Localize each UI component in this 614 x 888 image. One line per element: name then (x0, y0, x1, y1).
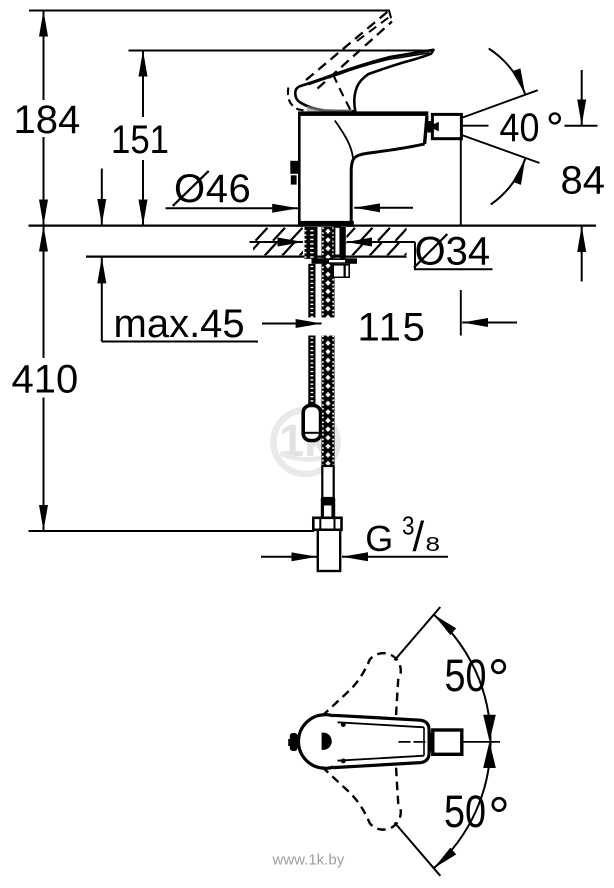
dim 40deg upper ray (438, 90, 538, 126)
faucet handle dashed raised mid edge (357, 16, 391, 41)
svg-text:www.1k.by: www.1k.by (272, 851, 345, 868)
dim 184 line (43, 11, 45, 101)
countertop bottom line (86, 255, 407, 257)
dim 184 extension line (29, 10, 390, 12)
faucet left clip lower (291, 175, 297, 184)
svg-text:50: 50 (445, 650, 487, 701)
aerator box front (432, 114, 461, 138)
arc 50 upper (434, 615, 491, 742)
bowtie arrow upper (483, 715, 496, 742)
svg-text:O34: O34 (415, 230, 491, 274)
dim 40deg lower ray (438, 127, 540, 164)
faucet base bar (298, 221, 354, 227)
svg-text:O46: O46 (174, 167, 251, 211)
top view inner top line (338, 722, 425, 727)
top view left knob (290, 733, 298, 751)
pop-up knob chord (305, 432, 319, 434)
top view centerline left (399, 741, 426, 743)
dim 115 right arrow (462, 322, 517, 324)
top view aerator (433, 730, 462, 754)
watermark 1k circle (274, 410, 338, 474)
mounting flange slit (329, 260, 345, 262)
hose fitting window (324, 506, 331, 518)
G38 right arrow (342, 556, 448, 558)
svg-text:151: 151 (111, 118, 169, 162)
ring 50 upper (492, 660, 504, 672)
dim 115 tick (460, 290, 462, 336)
dim O34 slash (414, 234, 447, 268)
arc 50 lower (434, 741, 491, 868)
faucet body inner curve (335, 121, 353, 159)
top view aerator connector (428, 733, 433, 752)
hex nut facets (320, 518, 334, 530)
countertop hatch (238, 228, 417, 256)
ring 50 lower (493, 798, 505, 810)
hex nut (313, 518, 341, 530)
shank white backdrop (303, 227, 347, 256)
faucet handle inner blade line (309, 53, 430, 85)
dim O34 left arrow (250, 241, 304, 243)
bowtie arrow lower (483, 741, 496, 768)
svg-text:/: / (413, 513, 425, 560)
svg-text:84: 84 (561, 159, 606, 203)
shank threaded left (305, 227, 318, 259)
faucet handle dashed tip (389, 11, 392, 22)
svg-text:410: 410 (12, 358, 79, 402)
top view D blob (322, 733, 332, 750)
faucet body right edge (425, 116, 427, 144)
faucet handle solid body (295, 50, 433, 112)
pop-up rod lower (308, 336, 315, 407)
G38 tube (318, 530, 340, 571)
dim 40deg stub (462, 125, 489, 127)
diag 50 upper (395, 607, 441, 660)
dim 40deg degree ring (550, 113, 560, 123)
dim 84 tick (565, 125, 598, 127)
hose fitting (321, 498, 335, 519)
lobe dashed upper (322, 653, 401, 718)
svg-text:G: G (365, 518, 393, 559)
top view dot upper (341, 722, 346, 727)
dim max45 upper arrow (101, 169, 103, 225)
top view inner right line (423, 727, 425, 755)
aerator flow arrowhead (429, 122, 439, 132)
faucet body top bar (298, 111, 428, 116)
dim max45 underline (102, 341, 258, 343)
top view dot lower (341, 759, 346, 764)
braided hose lower (322, 336, 335, 467)
pop-up knob (303, 406, 320, 441)
lobe dashed lower (322, 764, 401, 829)
dim 151 extension line (129, 50, 434, 52)
aerator connector (427, 121, 432, 133)
svg-text:8: 8 (426, 534, 441, 556)
faucet body left edge (298, 116, 301, 221)
dim O34 right arrow (346, 241, 415, 243)
mounting flange (312, 258, 358, 264)
dim 40deg lower arc (491, 159, 525, 205)
mounting nut facet windows (334, 266, 344, 277)
shank white window (335, 227, 341, 255)
dim 84 lower arrow (581, 226, 583, 282)
top view cap circle (299, 715, 353, 769)
faucet left clip upper (290, 161, 298, 174)
hose sleeve (322, 466, 333, 498)
shank right edge (340, 227, 346, 259)
svg-text:40: 40 (500, 106, 540, 150)
faucet handle dashed pivot echo (288, 88, 307, 112)
svg-text:50: 50 (444, 786, 486, 837)
dim O46 slash (173, 171, 209, 206)
pop-up rod upper (308, 264, 315, 318)
dim 410 bottom line (29, 530, 315, 532)
dim 151 line (142, 51, 144, 118)
shank braided hose (322, 227, 335, 318)
countertop top line (29, 224, 597, 226)
dim 410 line (43, 226, 45, 358)
dim O46 left arrow (166, 207, 299, 209)
dim O46 right arrow (354, 207, 413, 209)
outlet extension line (460, 139, 462, 225)
svg-text:184: 184 (14, 98, 81, 142)
dim max45 arrow (101, 257, 103, 341)
dim 40deg upper arc (489, 49, 526, 95)
svg-text:115: 115 (358, 306, 427, 350)
handle shade (307, 106, 352, 113)
top view centerline right (463, 741, 501, 743)
svg-text:max.45: max.45 (114, 302, 245, 346)
faucet spout underside (351, 144, 424, 221)
pop-up knob neck (308, 402, 314, 407)
top view inner bottom line (338, 756, 425, 761)
faucet handle dashed raised lower edge (318, 22, 393, 89)
dim O34 label box (415, 242, 493, 269)
G38 left arrow (261, 556, 317, 558)
dim 115 left arrow (262, 323, 322, 325)
dim 84 upper arrow (581, 70, 583, 125)
top view body (333, 715, 429, 767)
faucet handle dashed raised upper edge (306, 11, 389, 81)
faucet handle dashed inner diagonal (333, 75, 351, 111)
top view left knob bump (288, 739, 291, 746)
dim 40deg vertex arrowhead (429, 122, 439, 132)
diag 50 lower (395, 823, 441, 876)
mounting nut (332, 264, 351, 278)
